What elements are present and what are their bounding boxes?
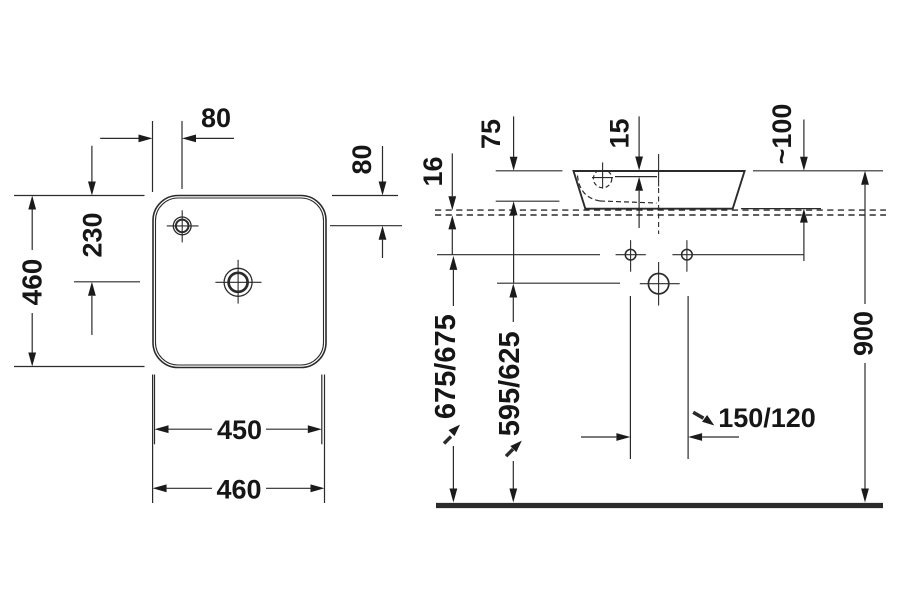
dim 230: drain axis extension line xyxy=(74,281,140,283)
faucet axis vertical (right view) xyxy=(602,162,604,188)
faucet hole outer circle xyxy=(173,217,191,235)
dim 595/625: lower shaft xyxy=(512,461,514,489)
dim 80 right: down arrowhead xyxy=(379,182,387,196)
svg-text:~100: ~100 xyxy=(767,104,797,165)
dim 460 left: lower shaft xyxy=(31,313,33,353)
countertop lower dashed line xyxy=(435,214,886,216)
mounting holes axis extension line left xyxy=(437,254,600,256)
faucet hole crosshair vertical xyxy=(181,210,183,242)
basin outer rim xyxy=(153,196,326,368)
svg-text:16: 16 xyxy=(418,156,448,186)
left mounting hole crosshair vertical xyxy=(630,240,632,272)
dim 16: up arrowhead xyxy=(448,215,456,229)
dim 150/120: left extension vertical xyxy=(629,296,631,459)
dim 460 bottom: left extension line xyxy=(152,375,154,504)
dim 450: left extension line xyxy=(154,375,156,445)
svg-text:230: 230 xyxy=(78,212,108,257)
drain inner circle xyxy=(229,273,248,292)
dim 460 bottom: dimension line right segment xyxy=(266,487,311,489)
dim 900: up arrowhead at rim line xyxy=(861,171,869,185)
dim 75: rim extension line left xyxy=(496,170,563,172)
drain outer circle xyxy=(224,268,252,296)
dim 230: down arrowhead at basin top line xyxy=(88,182,96,196)
drain crosshair horizontal xyxy=(215,281,261,283)
dim 230: upper shaft xyxy=(91,146,93,182)
dim 150/120: leader arrow xyxy=(693,412,703,418)
drain axis solid segment xyxy=(658,154,660,187)
dim 460 bottom: dimension line left segment xyxy=(167,487,212,489)
dim ~100: up arrowhead xyxy=(800,209,808,223)
basin inner rim xyxy=(156,198,324,365)
drain axis extension line left xyxy=(497,282,620,284)
dim 80 right: up arrowhead xyxy=(379,226,387,240)
dim 595/625: leader arrow xyxy=(506,449,513,456)
svg-text:460: 460 xyxy=(216,475,261,505)
countertop upper dashed line xyxy=(435,209,886,211)
dim 900: lower shaft xyxy=(864,363,866,489)
svg-text:75: 75 xyxy=(476,119,506,149)
basin profile outline xyxy=(574,171,745,209)
dim 80 top: extension line left edge xyxy=(152,121,154,192)
dim 15: lower shaft xyxy=(638,191,640,228)
faucet hole dashed circle (right view) xyxy=(593,169,611,187)
left mounting hole crosshair horizontal xyxy=(616,254,646,256)
dim 80 top: right-pointing arrowhead xyxy=(139,135,153,143)
dim 80 top: extension line faucet axis xyxy=(181,121,183,189)
dim 450: right extension line xyxy=(321,375,323,445)
drain axis dashed segment xyxy=(658,188,660,234)
dim 75: inner bottom extension line xyxy=(496,200,560,202)
dim 75: up arrowhead xyxy=(510,201,518,215)
dim 75: upper shaft xyxy=(513,116,515,157)
dim 80 top: dimension line left segment xyxy=(100,137,140,139)
drain crosshair horizontal (right view) xyxy=(640,283,680,285)
dim 150/120: left-pointing arrowhead xyxy=(688,433,702,441)
drain crosshair vertical xyxy=(237,260,239,304)
dim ~100: down arrowhead xyxy=(800,157,808,171)
svg-text:460: 460 xyxy=(17,259,48,306)
svg-text:675/675: 675/675 xyxy=(430,314,462,419)
dim 900: upper shaft xyxy=(864,185,866,304)
dim 595/625: upper shaft xyxy=(512,298,514,323)
svg-text:150/120: 150/120 xyxy=(718,403,816,433)
dim ~100: basin bottom extension line right xyxy=(741,208,821,210)
dim 16: down arrowhead xyxy=(448,196,456,210)
faucet hole inner circle xyxy=(176,220,189,233)
dim 460 left: up arrowhead xyxy=(28,196,36,210)
basin interior hidden bottom line xyxy=(600,201,657,203)
dim 675/675: leader arrow xyxy=(444,437,451,444)
dim 450: dimension line right segment xyxy=(266,428,308,430)
dim 230: lower shaft xyxy=(91,296,93,335)
right mounting hole xyxy=(682,249,693,260)
dim 75: down arrowhead xyxy=(510,157,518,171)
dim 15: upper shaft xyxy=(638,116,640,156)
dim 150/120: right-pointing arrowhead xyxy=(616,433,630,441)
dim 675/675: down arrowhead at floor xyxy=(450,489,458,503)
dim 150/120: dimension line left segment xyxy=(581,436,616,438)
dim 230: up arrowhead at drain axis xyxy=(88,282,96,296)
faucet hole crosshair horizontal xyxy=(167,225,199,227)
dim 150/120: dimension line right segment xyxy=(702,436,739,438)
dim 15: down arrowhead xyxy=(635,157,643,171)
svg-text:900: 900 xyxy=(849,311,879,356)
dim 460 left: upper shaft xyxy=(31,210,33,251)
dim 75: lower shaft down to drain axis xyxy=(513,215,515,283)
dim 595/625: up arrowhead at drain axis xyxy=(509,284,517,298)
dim 80 top: left-pointing arrowhead xyxy=(182,135,196,143)
dim 900: down arrowhead at floor xyxy=(861,489,869,503)
dim 460 left: down arrowhead xyxy=(28,353,36,367)
svg-text:15: 15 xyxy=(605,118,635,148)
dim 460 bottom: right extension line xyxy=(324,375,326,504)
dim 15: up arrowhead xyxy=(635,177,643,191)
dim 460 left: bottom extension line xyxy=(14,366,145,368)
basin interior hidden wall curve xyxy=(578,176,601,202)
dim 80 right: lower shaft xyxy=(382,240,384,258)
dim ~100: upper shaft xyxy=(803,120,805,158)
dim 450: dimension line left segment xyxy=(169,428,213,430)
basin inner ledge line xyxy=(615,176,657,178)
dim 450: right arrowhead xyxy=(308,425,322,433)
dim 80 top: dimension line right segment xyxy=(194,137,234,139)
dim 460 bottom: right arrowhead xyxy=(311,484,325,492)
dim 80 right: extension of faucet axis xyxy=(330,225,402,227)
floor line xyxy=(436,503,883,508)
left mounting hole xyxy=(625,249,636,260)
svg-text:80: 80 xyxy=(201,103,231,133)
dim 150/120: right extension vertical xyxy=(687,296,689,459)
dim 16: upper shaft xyxy=(451,153,453,196)
right mounting hole crosshair vertical xyxy=(686,240,688,272)
dim ~100: lower shaft xyxy=(803,223,805,261)
drain hole circle (right view) xyxy=(648,274,668,294)
dim 460 bottom: left arrowhead xyxy=(153,484,167,492)
svg-text:450: 450 xyxy=(217,415,262,445)
dim 450: left arrowhead xyxy=(155,425,169,433)
dim ~100: rim extension line right xyxy=(753,170,883,172)
dim 460 left: top extension line xyxy=(14,195,145,197)
dim 675/675: lower shaft xyxy=(452,446,454,489)
dim 675/675: upper shaft xyxy=(452,270,454,306)
svg-text:595/625: 595/625 xyxy=(494,331,526,436)
svg-text:80: 80 xyxy=(347,144,377,174)
dim 80 right: extension of basin top edge xyxy=(332,195,398,197)
faucet axis horizontal (right view) xyxy=(592,177,613,179)
dim 16: lower shaft xyxy=(451,229,453,255)
dim 595/625: down arrowhead at floor xyxy=(509,489,517,503)
right mounting hole crosshair horizontal and right extension xyxy=(672,254,804,256)
drain crosshair vertical (right view) xyxy=(658,262,660,306)
dim 675/675: up arrowhead at mounting axis xyxy=(450,256,458,270)
dim 80 right: upper shaft xyxy=(382,146,384,182)
